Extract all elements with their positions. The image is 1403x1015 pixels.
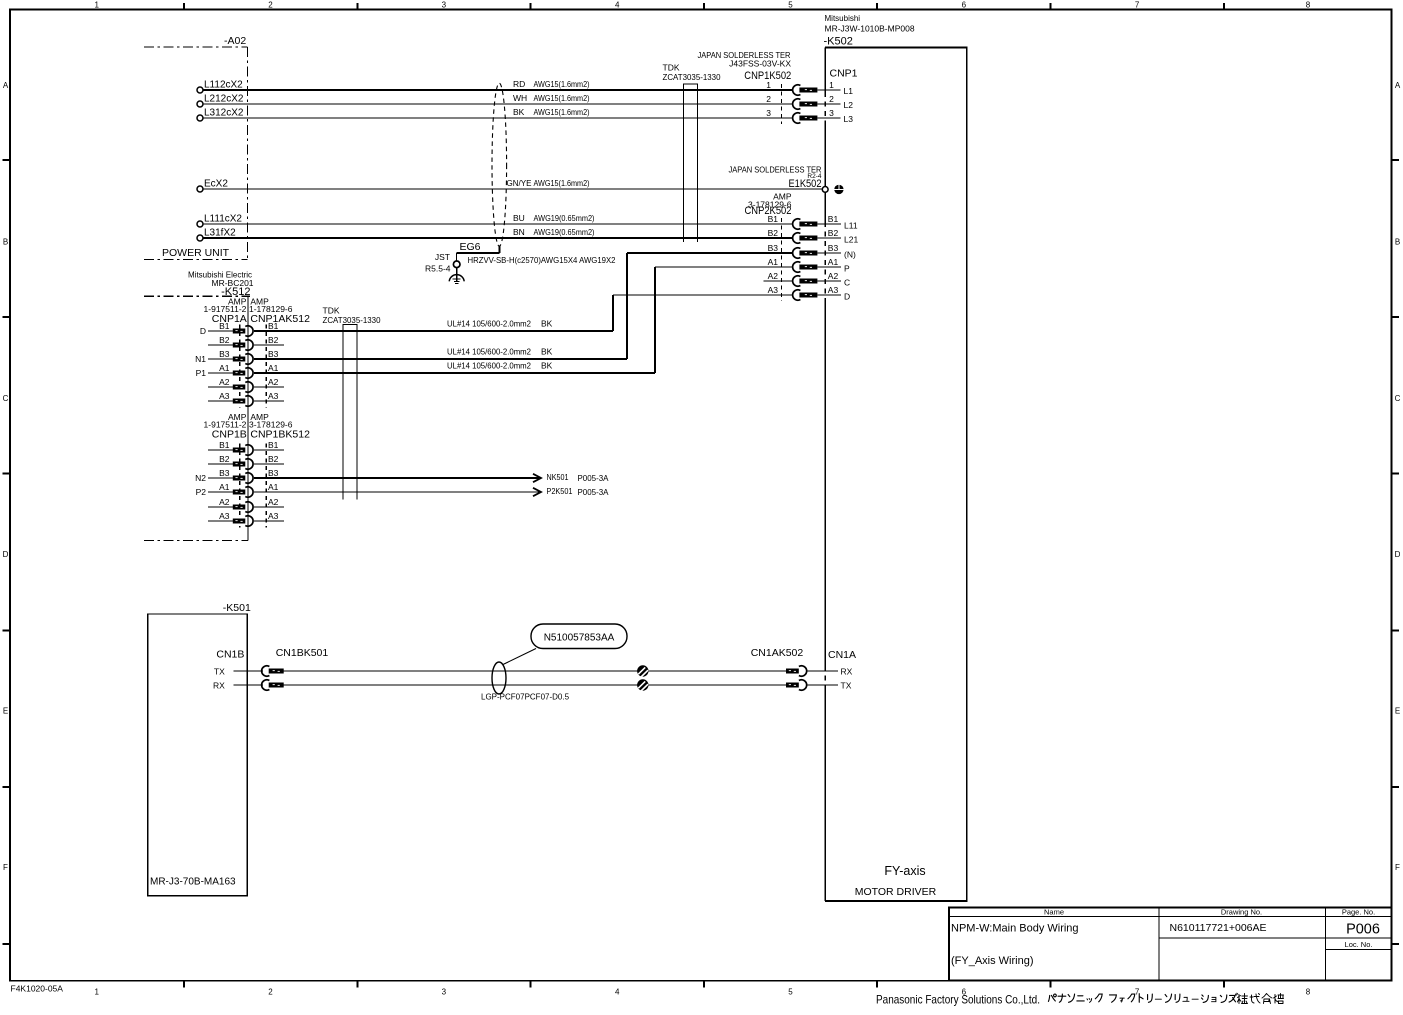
connector CNP1B pin B2 (208, 454, 284, 469)
svg-text:AWG19(0.65mm2): AWG19(0.65mm2) (534, 227, 595, 237)
terminal EcX2 (197, 179, 228, 193)
connector CN1B pin TX (214, 667, 263, 677)
ferrite bead 2 on comm wire (637, 679, 648, 691)
svg-text:2: 2 (268, 0, 273, 9)
svg-text:B3: B3 (219, 349, 230, 359)
svg-text:D: D (844, 292, 850, 302)
wire P2 to P2K501 (P005-3A) (254, 486, 609, 497)
connector CNP1 (on -K502) (830, 68, 858, 80)
svg-text:2: 2 (829, 94, 834, 104)
svg-text:BK: BK (541, 319, 553, 329)
svg-text:POWER UNIT: POWER UNIT (162, 247, 230, 259)
ferrite bead 1 on comm wire (637, 665, 648, 677)
svg-text:N1: N1 (195, 354, 206, 364)
svg-text:L312cX2: L312cX2 (204, 108, 244, 119)
svg-text:A2: A2 (268, 377, 279, 387)
svg-text:L2: L2 (844, 100, 854, 110)
svg-text:Page. No.: Page. No. (1342, 908, 1375, 917)
terminal L31fX2 (197, 228, 236, 242)
svg-text:RD: RD (513, 79, 525, 89)
wire P: CNP1A-A1 to CNP2-A1 UL#14 BK (254, 267, 792, 373)
svg-text:LGP-PCF07PCF07-D0.5: LGP-PCF07PCF07-D0.5 (481, 693, 570, 702)
svg-text:Name: Name (1044, 908, 1064, 917)
svg-text:N510057853AA: N510057853AA (544, 633, 615, 644)
svg-text:A2: A2 (828, 271, 839, 281)
wire CN1B-RX to CN1A-TX (284, 684, 786, 686)
svg-text:A: A (1395, 81, 1401, 90)
svg-text:3: 3 (442, 0, 447, 9)
connector CNP2K502 (AMP 3-178129-6) labels (745, 192, 792, 302)
svg-text:F4K1020-05A: F4K1020-05A (11, 984, 64, 994)
svg-text:L11: L11 (844, 221, 858, 231)
svg-text:AWG15(1.6mm2): AWG15(1.6mm2) (534, 93, 590, 103)
svg-text:A3: A3 (219, 391, 230, 401)
svg-text:L21: L21 (844, 235, 858, 245)
svg-text:E: E (1395, 707, 1400, 716)
svg-text:TX: TX (214, 667, 225, 677)
svg-text:D: D (200, 326, 206, 336)
svg-text:D: D (3, 550, 9, 559)
connector CNP1B pin A2 (208, 497, 284, 512)
svg-text:MR-J3W-1010B-MP008: MR-J3W-1010B-MP008 (825, 24, 915, 34)
wire D: CNP1A-B1 to CNP2-A3 UL#14 BK (254, 295, 792, 331)
svg-text:A1: A1 (828, 257, 839, 267)
svg-text:MOTOR DRIVER: MOTOR DRIVER (855, 886, 937, 898)
svg-text:UL#14 105/600-2.0mm2: UL#14 105/600-2.0mm2 (447, 361, 531, 371)
svg-text:P1: P1 (196, 368, 207, 378)
svg-text:5: 5 (788, 988, 793, 997)
svg-text:UL#14 105/600-2.0mm2: UL#14 105/600-2.0mm2 (447, 319, 531, 329)
CNP1 pin 3 net L3 (825, 108, 853, 124)
connector CNP1B/CNP1BK512 labels (204, 412, 311, 528)
svg-text:B1: B1 (219, 321, 230, 331)
title block (949, 908, 1391, 981)
shield drain wire EG6 HRZVV-SB-H (457, 241, 616, 265)
connector CN1B (on -K501) (216, 649, 244, 661)
svg-text:C: C (844, 278, 850, 288)
svg-text:B3: B3 (219, 468, 230, 478)
svg-text:BK: BK (541, 361, 553, 371)
svg-text:4: 4 (615, 988, 620, 997)
svg-text:A3: A3 (828, 285, 839, 295)
svg-text:L1: L1 (844, 86, 854, 96)
svg-text:TDK: TDK (663, 63, 680, 73)
terminal L111cX2 (197, 214, 242, 228)
svg-text:F: F (1395, 863, 1400, 872)
svg-text:A1: A1 (768, 257, 779, 267)
svg-text:3: 3 (442, 988, 447, 997)
svg-text:FY-axis: FY-axis (884, 864, 925, 878)
connector CNP1B pin B1 (208, 440, 284, 455)
motor driver box -K502 Mitsubishi MR-J3W-1010B-MP008 (824, 14, 967, 901)
connector CNP2K502 pin B2 net L21 (768, 228, 859, 245)
svg-text:CN1B: CN1B (216, 649, 244, 661)
connector CNP1K502 pin 2 (766, 94, 825, 109)
svg-text:B2: B2 (768, 228, 779, 238)
svg-text:TX: TX (841, 681, 852, 691)
svg-text:BK: BK (513, 107, 525, 117)
svg-text:A1: A1 (268, 363, 279, 373)
wire L1 phase RD AWG15 (203, 79, 792, 90)
connector CNP1A pin A2 (208, 377, 284, 392)
svg-text:AWG15(1.6mm2): AWG15(1.6mm2) (534, 178, 590, 188)
svg-text:2: 2 (766, 94, 771, 104)
svg-text:CN1BK501: CN1BK501 (276, 647, 329, 659)
connector CNP2K502 pin B3 net (N) (768, 243, 856, 260)
svg-text:BK: BK (541, 347, 553, 357)
svg-text:N2: N2 (195, 473, 206, 483)
connector CNP2K502 pin A2 net C (764, 271, 851, 288)
svg-text:D: D (1395, 550, 1401, 559)
cable shield bundle (dashed ellipse) (492, 83, 507, 253)
svg-text:ZCAT3035-1330: ZCAT3035-1330 (323, 315, 381, 325)
wire E ground GN/YE AWG15 (203, 178, 822, 189)
ground JST R5.5-4 (chassis earth) (425, 252, 464, 284)
svg-text:RX: RX (841, 667, 853, 677)
svg-text:L31fX2: L31fX2 (204, 228, 236, 239)
svg-text:N610117721+006AE: N610117721+006AE (1169, 922, 1266, 934)
svg-text:A1: A1 (219, 482, 230, 492)
svg-text:BN: BN (513, 227, 525, 237)
svg-text:B3: B3 (828, 243, 839, 253)
wire L21 BN AWG19 (203, 227, 792, 238)
svg-text:A3: A3 (268, 511, 279, 521)
svg-text:-A02: -A02 (224, 35, 246, 47)
svg-text:L3: L3 (844, 114, 854, 124)
terminal L312cX2 (197, 108, 244, 122)
svg-text:6: 6 (962, 0, 967, 9)
svg-text:B: B (1395, 237, 1400, 246)
cable marker LGP-PCF07PCF07-D0.5 (481, 662, 570, 702)
svg-text:B1: B1 (768, 214, 779, 224)
svg-text:B1: B1 (828, 214, 839, 224)
svg-text:L112cX2: L112cX2 (204, 80, 243, 91)
connector CNP1A pin B3 (195, 349, 284, 364)
svg-text:A3: A3 (268, 391, 279, 401)
svg-text:A1: A1 (268, 482, 279, 492)
connector CN1AK502 (751, 647, 826, 690)
protective earth symbol (inside -K502) (834, 185, 844, 194)
svg-text:J43FSS-03V-KX: J43FSS-03V-KX (729, 59, 791, 69)
terminal L112cX2 (197, 80, 243, 94)
connector CN1A (on -K502) (825, 649, 856, 691)
svg-text:1: 1 (829, 80, 834, 90)
svg-text:CNP1: CNP1 (830, 68, 858, 80)
svg-text:A2: A2 (219, 377, 230, 387)
wire L3 phase BK AWG15 (203, 107, 792, 118)
terminal E1K502 (JAPAN SOLDERLESS TER R2-4) (729, 165, 829, 193)
connector CNP1A pin B1 (200, 321, 284, 336)
connector CNP1K502 (JAPAN SOLDERLESS TER J43FSS-03V-KX) labels (698, 50, 792, 124)
svg-text:BU: BU (513, 213, 525, 223)
terminal L212cX2 (197, 94, 244, 108)
svg-text:3: 3 (829, 108, 834, 118)
connector CNP1A pin B2 (208, 335, 284, 350)
svg-text:A3: A3 (768, 285, 779, 295)
svg-text:E: E (3, 707, 8, 716)
svg-text:P005-3A: P005-3A (578, 487, 609, 497)
svg-text:R5.5-4: R5.5-4 (425, 264, 451, 274)
svg-text:C: C (3, 394, 9, 403)
svg-text:B1: B1 (268, 321, 279, 331)
svg-text:L111cX2: L111cX2 (204, 214, 242, 225)
footer: Panasonic Factory Solutions company name (876, 993, 1284, 1007)
svg-text:-K501: -K501 (223, 602, 251, 614)
connector CNP1B pin A1 (196, 482, 284, 497)
svg-text:P2K501: P2K501 (547, 486, 573, 496)
part label N510057853AA (503, 624, 627, 665)
svg-text:Loc. No.: Loc. No. (1345, 940, 1373, 949)
svg-text:8: 8 (1306, 988, 1311, 997)
connector CNP1B pin A3 (208, 511, 284, 526)
svg-text:WH: WH (513, 93, 527, 103)
brake/regen unit box -K512 Mitsubishi Electric MR-BC201 (144, 271, 254, 541)
svg-text:A2: A2 (268, 497, 279, 507)
ferrite core TDK ZCAT3035-1330 (K512 side) (323, 306, 381, 500)
svg-text:B: B (3, 237, 8, 246)
connector CNP2K502 pin A1 net P (768, 257, 850, 274)
connector CN1BK501 (262, 647, 329, 690)
svg-text:A: A (3, 81, 9, 90)
connector CNP1B pin B3 (195, 468, 284, 483)
svg-text:A2: A2 (768, 271, 779, 281)
connector CNP1K502 pin 3 (766, 108, 825, 123)
power unit box -A02 (144, 35, 248, 260)
svg-text:NPM-W:Main Body Wiring: NPM-W:Main Body Wiring (951, 923, 1079, 935)
wire CN1B-TX to CN1A-RX (284, 670, 786, 672)
ferrite core TDK ZCAT3035-1330 (top) (663, 63, 721, 243)
svg-text:GN/YE: GN/YE (507, 178, 532, 188)
svg-text:E1K502: E1K502 (789, 178, 822, 190)
svg-text:B2: B2 (219, 454, 230, 464)
svg-text:F: F (3, 863, 8, 872)
svg-text:L212cX2: L212cX2 (204, 94, 244, 105)
svg-text:B2: B2 (219, 335, 230, 345)
svg-text:B3: B3 (768, 243, 779, 253)
svg-text:NK501: NK501 (547, 472, 569, 482)
wire L2 phase WH AWG15 (203, 93, 792, 104)
servo amplifier box -K501 MR-J3-70B-MA163 (148, 602, 251, 896)
svg-text:P2: P2 (196, 487, 207, 497)
svg-text:B3: B3 (268, 349, 279, 359)
svg-text:8: 8 (1306, 0, 1311, 9)
connector CN1B pin RX (213, 681, 263, 691)
connector CNP1A/CNP1AK512 labels (204, 297, 311, 408)
svg-text:-K502: -K502 (824, 36, 853, 48)
svg-text:CNP1BK512: CNP1BK512 (250, 428, 310, 440)
svg-text:A2: A2 (219, 497, 230, 507)
connector CNP2K502 pin A3 net D (768, 285, 851, 302)
svg-text:(FY_Axis Wiring): (FY_Axis Wiring) (951, 955, 1034, 967)
svg-text:ZCAT3035-1330: ZCAT3035-1330 (663, 72, 721, 82)
svg-text:C: C (1395, 394, 1401, 403)
svg-text:2: 2 (268, 988, 273, 997)
svg-text:CNP1B: CNP1B (212, 428, 247, 440)
svg-text:CNP1AK512: CNP1AK512 (250, 313, 310, 325)
svg-text:3: 3 (766, 108, 771, 118)
svg-text:A1: A1 (219, 363, 230, 373)
svg-text:CN1A: CN1A (828, 649, 856, 661)
svg-text:P006: P006 (1346, 922, 1380, 938)
svg-text:Drawing No.: Drawing No. (1221, 908, 1262, 917)
svg-text:B2: B2 (268, 335, 279, 345)
svg-text:JST: JST (435, 252, 450, 262)
svg-text:(N): (N) (844, 250, 856, 260)
svg-text:A3: A3 (219, 511, 230, 521)
wire N: CNP1A-B3 to CNP2-B3 UL#14 BK (254, 253, 792, 359)
svg-text:1: 1 (766, 80, 771, 90)
svg-text:EcX2: EcX2 (204, 179, 228, 190)
svg-text:Panasonic Factory Solutions Co: Panasonic Factory Solutions Co.,Ltd. (876, 993, 1040, 1007)
svg-text:P005-3A: P005-3A (578, 473, 609, 483)
svg-text:B1: B1 (268, 440, 279, 450)
connector CNP1K502 pin 1 (766, 80, 825, 95)
svg-text:MR-J3-70B-MA163: MR-J3-70B-MA163 (150, 877, 236, 888)
svg-text:B3: B3 (268, 468, 279, 478)
connector CNP2K502 pin B1 net L11 (768, 214, 858, 231)
svg-text:UL#14 105/600-2.0mm2: UL#14 105/600-2.0mm2 (447, 347, 531, 357)
svg-text:CN1AK502: CN1AK502 (751, 647, 804, 659)
svg-text:P: P (844, 264, 850, 274)
svg-text:4: 4 (615, 0, 620, 9)
svg-text:B2: B2 (828, 228, 839, 238)
svg-text:1: 1 (94, 0, 99, 9)
svg-text:5: 5 (788, 0, 793, 9)
CNP1 pin 2 net L2 (825, 94, 853, 110)
svg-text:RX: RX (213, 681, 225, 691)
svg-text:B1: B1 (219, 440, 230, 450)
svg-text:AWG15(1.6mm2): AWG15(1.6mm2) (534, 107, 590, 117)
svg-text:AWG19(0.65mm2): AWG19(0.65mm2) (534, 213, 595, 223)
svg-text:EG6: EG6 (460, 241, 481, 253)
connector CNP1A pin A1 (196, 363, 284, 378)
svg-text:B2: B2 (268, 454, 279, 464)
connector CNP1A pin A3 (208, 391, 284, 406)
svg-text:1: 1 (94, 988, 99, 997)
svg-text:HRZVV-SB-H(c2570)AWG15X4 AWG19: HRZVV-SB-H(c2570)AWG15X4 AWG19X2 (468, 255, 616, 265)
CNP1 pin 1 net L1 (825, 80, 853, 96)
wire L11 BU AWG19 (203, 213, 792, 224)
svg-text:AWG15(1.6mm2): AWG15(1.6mm2) (534, 79, 590, 89)
svg-text:Mitsubishi: Mitsubishi (825, 14, 861, 23)
svg-text:7: 7 (1135, 0, 1140, 9)
wire N2 to NK501 (P005-3A) (254, 472, 609, 483)
